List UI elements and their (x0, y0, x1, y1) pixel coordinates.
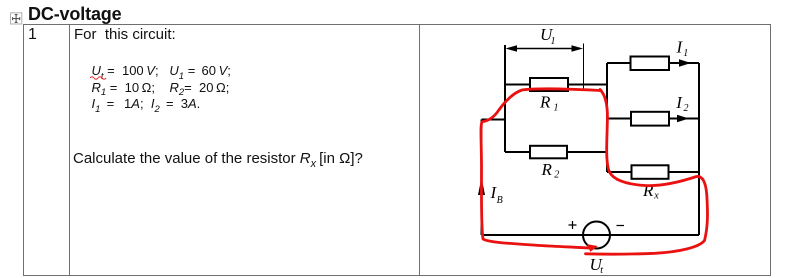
tick right of U1 measure (583, 44, 585, 90)
cell number (28, 26, 37, 44)
svg-text:R: R (539, 93, 551, 112)
current arrow I2 (677, 115, 689, 122)
column border 1 (69, 24, 70, 276)
wire right rail (698, 63, 700, 235)
node bar left parallel (504, 45, 506, 152)
wire R2 branch (505, 151, 607, 153)
current arrow I1 (679, 59, 691, 66)
svg-text:2: 2 (554, 170, 559, 181)
heading (28, 4, 122, 25)
resistor R2 (530, 146, 567, 159)
wire bottom (482, 234, 700, 236)
wire I1 branch (607, 62, 699, 64)
svg-text:I: I (676, 37, 684, 56)
red loop arrowhead (588, 245, 598, 252)
svg-text:2: 2 (684, 103, 689, 114)
svg-text:1: 1 (554, 103, 559, 114)
red annotation loop left/top part (481, 89, 708, 254)
current arrow IB (478, 178, 485, 196)
svg-text:1: 1 (683, 48, 688, 59)
wire left rail (481, 120, 483, 236)
resistor Rx (632, 165, 669, 179)
wire R1 branch (505, 84, 607, 86)
column border 2 (419, 24, 420, 276)
svg-text:R: R (541, 160, 553, 179)
label U1 (490, 25, 689, 276)
cell text (74, 26, 176, 43)
resistor R1 (530, 78, 568, 91)
resistor middle right (631, 112, 669, 126)
svg-text:t: t (600, 265, 603, 276)
svg-text:x: x (653, 191, 659, 202)
wire I2 branch (607, 118, 699, 120)
label plus of source (569, 221, 625, 229)
svg-text:1: 1 (551, 36, 556, 47)
label minus of source (617, 225, 625, 227)
resistor top right (631, 57, 670, 71)
svg-text:B: B (497, 195, 503, 206)
svg-text:I: I (675, 93, 683, 112)
question line (73, 150, 363, 170)
wire left connector (482, 119, 506, 121)
source Ut circle (583, 222, 610, 249)
wire middle rail (606, 63, 608, 172)
U1 dimension arrow (514, 48, 575, 50)
red loop right part (586, 90, 708, 255)
wire Rx branch (607, 171, 699, 173)
